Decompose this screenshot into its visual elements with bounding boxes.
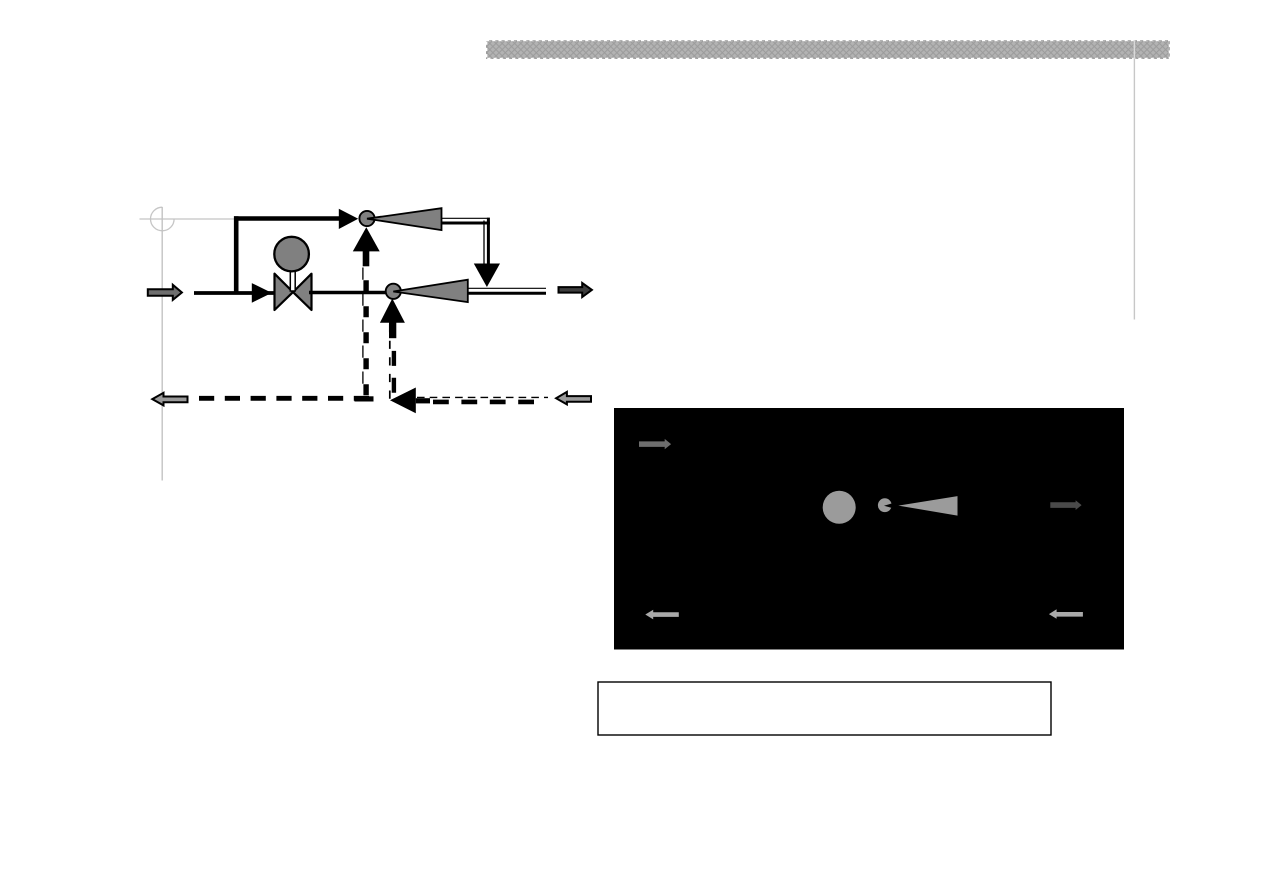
control valve V1 (bowtie) — [275, 274, 312, 310]
hatched banner — [486, 40, 1170, 59]
EJ1 outlet double pipe (thick) — [442, 222, 490, 225]
ejector EJ2 diffuser cone — [393, 280, 468, 302]
vertical guide line segment over banner — [1133, 40, 1135, 59]
main suction pipe — [194, 291, 277, 295]
control signal shaft EJ2 — [389, 322, 396, 338]
EJ2 outlet double pipe (thick) — [468, 292, 546, 295]
motive branch riser pipe — [234, 216, 239, 293]
EJ1 outlet double pipe (thin) — [442, 217, 488, 219]
panel nozzle notch wedge — [884, 502, 898, 510]
control signal dashed line EJ1 (thin) — [362, 268, 364, 399]
panel diffuser cone — [898, 496, 957, 515]
control signal arrowhead to EJ1 — [353, 227, 380, 251]
flow arrowhead on motive pipe — [339, 209, 358, 229]
panel arrow top-left (gray, right) — [639, 439, 671, 449]
panel steam chest circle — [823, 491, 856, 524]
control signal line from right (thin dotted) — [417, 396, 548, 398]
control signal arrowhead to EJ2 — [380, 299, 405, 323]
ejector EJ2 nozzle circle — [386, 284, 401, 299]
panel arrow bottom-left (light gray, left) — [645, 610, 679, 620]
EJ1 downcomer double pipe (thick) — [487, 218, 490, 264]
caption box — [598, 682, 1051, 735]
EJ2 outlet double pipe (thin) — [468, 287, 546, 289]
panel arrow right (dark gray, right) — [1050, 500, 1081, 510]
datum horizontal axis line — [140, 218, 237, 220]
control signal shaft (left arrow) — [416, 398, 430, 403]
control signal source arrow (gray, left) — [556, 392, 591, 405]
valve actuator (circle) — [274, 237, 309, 272]
ejector EJ1 nozzle circle — [359, 211, 374, 226]
control signal dashed line EJ1 (thick) — [363, 280, 368, 396]
panel nozzle circle — [878, 498, 892, 512]
datum crosshair circle (3/4 arc) — [151, 207, 175, 231]
control line EJ1 end tick — [355, 396, 374, 401]
condensate return arrow (gray, left) — [152, 393, 187, 406]
motive top pipe — [234, 216, 341, 221]
outlet flow arrow (dark gray, right) — [559, 283, 592, 297]
suction pipe to ejector EJ2 — [309, 291, 386, 295]
panel arrow bottom-right (light gray, left) — [1049, 609, 1083, 618]
control signal shaft EJ1 — [363, 251, 370, 267]
inlet flow arrow (gray, right) — [148, 285, 182, 300]
photo panel (black) — [614, 408, 1124, 650]
control signal arrowhead (left, into node) — [390, 388, 416, 414]
ejector EJ1 diffuser cone — [367, 208, 442, 230]
control signal dashed line EJ2 (thin) — [389, 324, 391, 399]
datum vertical axis line — [161, 207, 163, 481]
control signal line from right (thick dashed) — [433, 400, 542, 405]
vertical guide line (right margin) — [1133, 40, 1135, 320]
EJ1 downcomer double pipe (thin) — [483, 221, 485, 264]
flow arrowhead on suction pipe — [252, 283, 272, 303]
control signal dashed line EJ2 (thick) — [392, 351, 396, 396]
downward arrowhead into suction pipe — [474, 264, 500, 288]
condensate return dashed line (left) — [199, 396, 374, 401]
valve stem — [290, 271, 295, 292]
